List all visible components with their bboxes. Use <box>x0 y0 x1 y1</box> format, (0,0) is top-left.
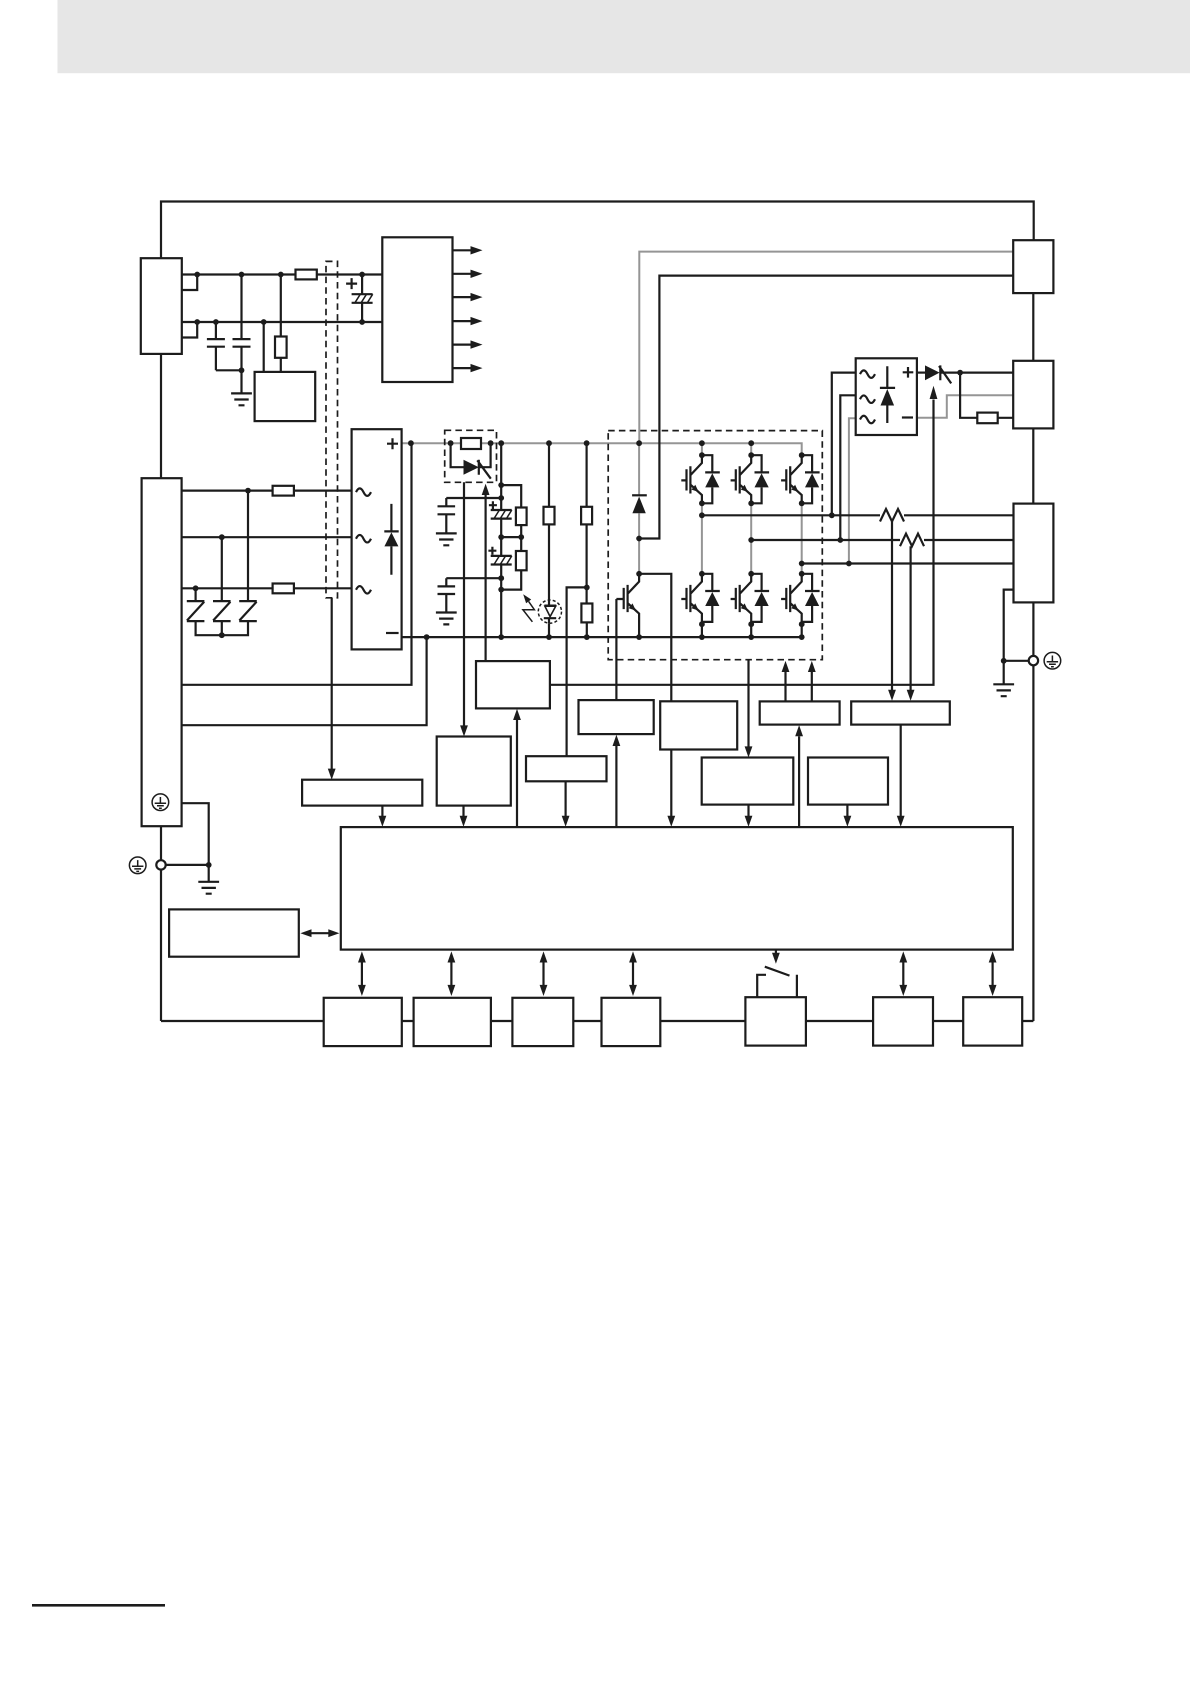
electrolytic capacitor C3 across control lines <box>361 275 363 323</box>
ground for upper snubber cap <box>436 533 457 545</box>
wire: brake collector sense line to detector <box>639 574 671 702</box>
wire: connector pin stub lower <box>182 322 197 338</box>
wire: surge absorber common bus <box>196 621 248 635</box>
wire: charge lamp branch <box>548 443 550 637</box>
io box 6 <box>873 997 933 1045</box>
balance resistor lower <box>516 551 527 570</box>
wire: B1 to B2 link <box>1032 293 1034 361</box>
block: interface C (long thin) <box>302 780 422 806</box>
block: display/operator D <box>169 909 299 956</box>
wire: surge absorber drop from L1 <box>247 491 249 601</box>
wire: relay sense line from P bus node to connector CN2 <box>182 443 412 685</box>
wire: gray drop bus to V-phase upper collector <box>750 443 752 455</box>
plus polarity mark for C3 <box>346 278 357 289</box>
terminal block B2 <box>1013 361 1053 429</box>
double arrow: display to control <box>309 932 331 934</box>
wire: surge absorber drop from L2 <box>221 537 223 601</box>
plus mark smoothing cap lower <box>488 547 496 555</box>
diode inside rectifier2 <box>880 366 895 423</box>
ac mark input 3 <box>356 586 371 594</box>
wire: inrush SCR branch <box>451 443 491 467</box>
wire: node drop to sense resistor <box>960 373 1013 418</box>
wire+arrow: current sensor V signal down to detection box <box>909 546 911 690</box>
wire: PE pigtail from CN2 to ground <box>182 803 209 882</box>
double arrow control to io box 4 <box>632 960 634 988</box>
current sensor V (zigzag) <box>900 534 924 547</box>
block: main control circuit (large) <box>341 827 1013 950</box>
arrow: control to relay contact <box>775 950 777 954</box>
plus mark smoothing cap upper <box>489 501 497 509</box>
rectifier bridge 2 (regen converter) <box>856 358 917 435</box>
junction dot PE right <box>1001 658 1007 664</box>
plus mark of main rectifier <box>387 438 398 449</box>
double arrow control to io box 6 <box>902 960 904 988</box>
electrolytic smoothing capacitor upper <box>491 510 512 519</box>
block: current detection G <box>851 701 950 724</box>
arrow output 2 <box>453 273 472 275</box>
arrow output 1 <box>453 249 472 251</box>
wire: PE junction to earth terminal <box>166 864 209 866</box>
wire: V-phase midpoint gray link <box>750 503 752 574</box>
wire: rectifier2 plus output <box>917 372 925 374</box>
minus mark rectifier2 <box>902 416 913 418</box>
dashed panel boundary (EMC shield) <box>326 261 338 597</box>
connector CN2 main power input <box>142 478 182 826</box>
capacitor: snubber cap upper to ground <box>438 498 456 533</box>
junction dots N(-) bus <box>424 634 805 640</box>
ac mark rect2 input 2 <box>860 395 875 403</box>
footer rule line <box>32 1604 165 1607</box>
transistor: U-phase lower IGBT <box>681 574 720 622</box>
wire: V-phase feed to rectifier2 <box>840 395 855 540</box>
wire: motor connector down to earth terminal <box>1032 602 1034 656</box>
block: gate drive F <box>760 701 840 724</box>
junction dots control line L1C <box>194 272 365 278</box>
wire+arrow: current sensor U signal down to detection box <box>891 522 893 691</box>
charge lamp series resistor <box>544 507 555 525</box>
arrow output 5 <box>453 344 472 346</box>
wire: U-phase output <box>702 514 880 516</box>
junction dot filter caps <box>239 367 245 373</box>
ground: chassis ground left <box>198 882 219 894</box>
wire: brake diode to brake IGBT collector (gray) <box>638 539 640 574</box>
block: detect E2 <box>808 758 888 805</box>
wire: control line L2C <box>182 321 382 323</box>
wire: U-phase midpoint gray link <box>701 503 703 574</box>
arrow: voltage detection down to control <box>564 781 566 816</box>
wire: CN2 bottom stub to earth terminal <box>160 826 162 860</box>
terminal block B1 (external brake resistor) <box>1013 240 1053 293</box>
wire: top rail from control connector to terminal block B1 <box>161 202 1034 259</box>
wire: V-phase output <box>751 539 900 541</box>
resistor R1 in series control line <box>296 270 317 280</box>
wire: smoothing cap tap lower <box>446 577 501 579</box>
arrow: inrush control drive up into dashed box <box>485 495 487 662</box>
wire: N(-) DC bus <box>402 636 802 638</box>
ac mark input 1 <box>356 488 371 496</box>
io box 7 <box>963 997 1022 1045</box>
resistor on phase L1 <box>273 486 294 496</box>
block: control power supply output block with 6 outputs <box>382 237 452 382</box>
io box 2 <box>414 998 491 1046</box>
transistor: brake IGBT (no diode) <box>616 574 639 637</box>
block: voltage detection E <box>526 756 607 781</box>
wire: V-phase output to motor connector <box>924 539 1014 541</box>
dashed box: IGBT power module <box>608 431 822 660</box>
wire: PE down to ground right <box>1003 661 1005 685</box>
ac mark rect2 input 1 <box>860 370 875 378</box>
wire: W-phase midpoint gray link <box>801 503 803 574</box>
bottom rail bus <box>161 1020 1033 1022</box>
arrow: current detection down to control <box>900 725 902 816</box>
double arrow control to io box 1 <box>361 960 363 988</box>
relay contact symbol <box>757 967 797 998</box>
wire: control line L1C <box>182 273 382 275</box>
wire: thyristor cathode to terminal block B2 <box>940 372 1013 374</box>
arrow output 4 <box>453 320 472 322</box>
transistor: W-phase lower IGBT <box>781 574 820 622</box>
protective earth symbol inside CN2 <box>152 794 169 811</box>
wire: motor connector PE stub <box>1004 590 1014 661</box>
wire: U-phase output to motor connector <box>904 514 1014 516</box>
junction dots mains phases <box>193 488 251 638</box>
wire: brake node to external resistor terminal (dark riser) <box>639 276 1013 539</box>
arrow: interface C down to control <box>381 806 383 816</box>
wire: connector pin stub upper <box>182 275 197 291</box>
header band <box>58 0 1190 73</box>
relay output box 5 <box>745 997 806 1045</box>
transistor: W-phase upper IGBT <box>781 455 820 503</box>
wire+arrow: thermistor line into C2 <box>747 660 749 747</box>
double arrow control to io box 7 <box>991 960 993 988</box>
earth symbol in circle (outside, left) <box>129 857 146 874</box>
wire: gray feed from DC bus up to external terminal block B1 <box>639 252 1013 444</box>
earth terminal (open circle) left <box>156 860 165 869</box>
dashed box: inrush suppression circuit <box>445 430 497 482</box>
wire: W lower emitter to N bus <box>801 622 803 637</box>
ground for line filter caps <box>231 393 252 405</box>
light emission arrow of charge lamp <box>523 601 535 621</box>
electrolytic smoothing capacitor lower <box>491 556 512 565</box>
minus mark of main rectifier <box>386 632 399 634</box>
double arrow control to io box 2 <box>450 960 452 988</box>
wire: mains phase L3 <box>182 587 352 589</box>
balance resistor upper <box>516 508 527 526</box>
block: control power supply unit <box>255 372 316 421</box>
wire: W-phase output to motor connector <box>802 562 1014 564</box>
rectifier bridge block (main) <box>352 429 402 649</box>
arrow output 3 <box>453 296 472 298</box>
ac mark rect2 input 3 <box>860 416 875 424</box>
capacitor: snubber cap lower to ground <box>438 578 456 612</box>
transistor: U-phase upper IGBT <box>681 455 720 503</box>
wire: mains phase L2 <box>182 536 352 538</box>
arrow: relay drive B down to control <box>462 806 464 816</box>
capacitor C1 line filter <box>207 322 242 370</box>
wire+arrow: shield line into interface C <box>331 598 333 769</box>
wire: N line from minus bus node to connector CN2 <box>182 637 427 725</box>
capacitor C2 line filter <box>233 275 251 394</box>
wire: P(+) DC bus (gray) from rectifier to inverter <box>402 443 802 455</box>
divider resistor lower <box>581 604 592 623</box>
wire: main smoothing branch vertical <box>500 443 502 637</box>
arrow: control to gate drive F <box>798 736 800 827</box>
wire: gray link rectifier2 minus to terminal block B2 <box>917 395 1013 418</box>
io box 3 <box>512 998 573 1046</box>
arrow: gate drive to IGBT module 1 <box>784 672 786 701</box>
divider resistor upper <box>581 507 592 525</box>
wire: mains phase L1 <box>182 490 352 492</box>
wire: L2C tap into PSU box <box>263 322 265 372</box>
surge absorber Z1 <box>187 601 205 621</box>
wire: U lower emitter to N bus <box>701 622 703 637</box>
block: relay/inrush drive B <box>437 737 511 806</box>
junction dot thyristor output node <box>957 370 963 376</box>
surge absorber Z2 <box>213 601 231 621</box>
wire: right vertical down to bottom rail <box>1032 665 1034 1021</box>
resistor R2 vertical to PSU box <box>280 275 282 372</box>
resistor on phase L3 <box>273 584 294 594</box>
double arrow control to io box 3 <box>542 960 544 988</box>
junction dot divider tap <box>584 585 590 591</box>
io box 4 <box>602 998 661 1046</box>
wire: voltage divider branch <box>585 443 587 637</box>
arrow output 6 <box>453 367 472 369</box>
arrow: control to brake gate driver <box>615 746 617 827</box>
wire: B2 to motor connector link <box>1032 428 1034 503</box>
wire: brake IGBT gate line down to driver box <box>615 599 617 700</box>
connector CN1 control power input <box>141 258 182 354</box>
thyristor (regen) with strike <box>925 365 940 380</box>
junction dots brake chopper <box>636 536 642 577</box>
ground: chassis ground right <box>993 684 1014 696</box>
wire: balance resistor chain branch <box>501 485 521 589</box>
arrow: brake detect down to control <box>670 750 672 817</box>
arrow: gate drive to IGBT module 2 <box>811 672 813 701</box>
surge absorber Z3 <box>239 601 257 621</box>
junction dot PE left <box>206 862 212 868</box>
wire: V lower emitter to N bus <box>750 622 752 637</box>
wire+arrow: thyristor gate line down to relay drive box <box>463 482 465 726</box>
wire: surge absorber drop from L3 <box>195 588 197 601</box>
wire: gray W-phase feed to rectifier2 input <box>849 418 856 563</box>
brake diode <box>632 494 647 496</box>
earth terminal (open circle) right <box>1029 656 1038 665</box>
ground for lower snubber cap <box>436 613 457 625</box>
current sensor U (zigzag) <box>880 509 904 522</box>
junction dots P(+) bus <box>408 440 754 446</box>
junction dots control line L2C <box>194 319 365 325</box>
arrow: C2 down to control <box>747 805 749 816</box>
wire: link between connectors CN1 and CN2 <box>160 354 162 478</box>
wire: left vertical down to bottom rail <box>160 870 162 1021</box>
charge lamp LED (dashed circle) <box>538 600 561 623</box>
inrush bypass resistor on P bus <box>461 438 481 449</box>
arrow: control to relay drive A <box>516 720 518 827</box>
junction dots smoothing branch <box>498 482 524 592</box>
wire: brake chopper top feed (gray) <box>638 443 640 495</box>
block: temperature detect C2 <box>702 758 794 805</box>
junction dots inverter phase legs <box>699 452 805 627</box>
wire: gray drop bus to U-phase upper collector <box>701 443 703 455</box>
transistor: V-phase lower IGBT <box>731 574 770 622</box>
block: brake gate driver H <box>579 700 654 734</box>
sense resistor to terminal block B2 <box>977 413 997 424</box>
arrow: E2 down to control <box>846 805 848 816</box>
io box 1 <box>324 998 402 1046</box>
thyristor (inrush bypass) <box>464 460 479 475</box>
block: relay drive A <box>476 661 550 708</box>
junction dots phase feeds to rectifier2 <box>829 512 852 566</box>
plus mark rectifier2 <box>903 367 914 378</box>
connector CN-motor <box>1014 504 1054 603</box>
wire: U-phase feed to rectifier2 <box>832 373 856 516</box>
wire: voltage sense tap to detector box <box>567 587 587 756</box>
transistor: V-phase upper IGBT <box>731 455 770 503</box>
ac mark input 2 <box>356 535 371 543</box>
wire: PE junction link to earth terminal right <box>1004 660 1029 662</box>
wire+arrow: regen control line up to thyristor <box>550 400 934 685</box>
block: brake detect I <box>660 701 737 749</box>
diode symbol inside main rectifier <box>384 504 398 575</box>
earth symbol in circle (right) <box>1044 652 1061 669</box>
wire: smoothing cap tap upper <box>446 497 501 499</box>
